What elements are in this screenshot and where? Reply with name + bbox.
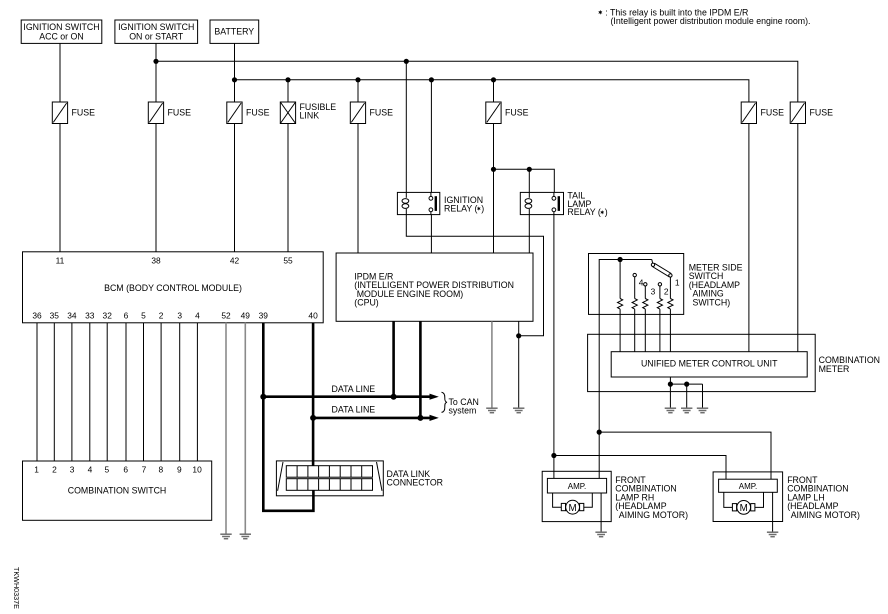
svg-text:42: 42 (230, 255, 240, 265)
svg-text:FUSE: FUSE (370, 108, 394, 118)
svg-text:3: 3 (70, 465, 75, 475)
svg-text:M: M (740, 503, 748, 514)
wire battery to fuse (234, 43, 236, 102)
svg-text:METER: METER (819, 364, 850, 374)
tail lamp relay U2 (520, 191, 607, 218)
ground BCM 52 (220, 534, 231, 539)
svg-text:AIMING MOTOR): AIMING MOTOR) (791, 510, 860, 520)
ground lamp RH (595, 532, 606, 537)
junction ON/START bus (153, 59, 158, 64)
svg-text:): ) (605, 207, 608, 217)
IPDM E/R box (336, 253, 533, 321)
wire bus2 to ignition relay contact (430, 80, 432, 193)
svg-text:3: 3 (177, 310, 182, 320)
svg-text:COMBINATION SWITCH: COMBINATION SWITCH (68, 486, 167, 496)
wire tail relay coil to IPDM (528, 215, 530, 253)
ignition switch ACC box (21, 20, 102, 43)
data line wire BCM 39 (263, 323, 313, 511)
svg-text:FUSE: FUSE (246, 108, 270, 118)
svg-text:IGNITION SWITCH: IGNITION SWITCH (23, 22, 99, 32)
wire ACC switch to fuse (59, 43, 61, 102)
junction tail feed split (551, 453, 556, 458)
IPDM ground wire 2 (518, 321, 520, 407)
svg-text:5: 5 (141, 310, 146, 320)
fuse 1 (ACC) (52, 102, 95, 124)
label lamp LH (787, 475, 860, 520)
ground meter 1 (665, 408, 676, 413)
svg-text:10: 10 (192, 465, 202, 475)
svg-text:7: 7 (142, 465, 147, 475)
ignition switch ON/START box (115, 20, 198, 43)
meter side switch label (689, 262, 743, 307)
wire BCM 49 to ground (244, 323, 246, 534)
wire fuse3 to BCM pin 42 (234, 124, 236, 252)
svg-text:TKWH0337E: TKWH0337E (12, 567, 21, 609)
wire bus2 to fusible link (287, 80, 289, 102)
svg-text:35: 35 (50, 310, 60, 320)
junction aiming signal split (597, 430, 602, 435)
svg-text:AIMING MOTOR): AIMING MOTOR) (619, 510, 688, 520)
svg-text:DATA LINE: DATA LINE (332, 384, 376, 394)
junction data line 1 (260, 394, 266, 400)
junction ignition relay coil feed (404, 59, 409, 64)
junction battery bus (232, 77, 237, 82)
fuse 6 (486, 102, 529, 124)
wire tail relay contact down to lamps (553, 215, 555, 456)
data line 1 to CAN (263, 395, 431, 398)
wire fuse7 to unified meter (748, 124, 750, 352)
svg-text:33: 33 (85, 310, 95, 320)
front combination lamp RH (542, 471, 611, 531)
junction fuse F feed (491, 77, 496, 82)
svg-text:FUSE: FUSE (72, 108, 96, 118)
note asterisk legend (598, 8, 810, 27)
svg-text:49: 49 (241, 310, 251, 320)
IPDM data pins (392, 321, 395, 396)
svg-text:FUSE: FUSE (168, 108, 192, 118)
svg-text:M: M (569, 503, 577, 514)
wire tail feed to RH lamp (553, 456, 555, 479)
wire ignition relay coil return (406, 215, 543, 336)
svg-text:2: 2 (159, 310, 164, 320)
svg-text:4: 4 (88, 465, 93, 475)
fuse 5 (350, 102, 393, 124)
wire ignition relay contact to IPDM (430, 215, 432, 253)
fuse 2 (ON/START) (148, 102, 191, 124)
wire fusible link to BCM pin 55 (287, 124, 289, 252)
svg-text:38: 38 (151, 255, 161, 265)
svg-text:DATA LINE: DATA LINE (332, 405, 376, 415)
wire bus2 to fuse E (357, 80, 359, 102)
data line 2 to CAN (313, 417, 431, 420)
svg-text:1: 1 (675, 277, 680, 287)
resistors (617, 299, 622, 310)
ground meter 2 (681, 408, 692, 413)
fusible link (280, 102, 336, 124)
wire bus2 to fuse F (493, 80, 495, 102)
label combination meter (819, 355, 880, 374)
junction fusible link feed (285, 77, 290, 82)
junction data line 2 (310, 415, 316, 421)
wire ON/START switch to fuse (155, 43, 157, 102)
ground IPDM 1 (486, 408, 497, 413)
bus ignition (from ON/START) (156, 61, 798, 102)
svg-text:IGNITION SWITCH: IGNITION SWITCH (118, 22, 194, 32)
bus battery (235, 80, 749, 102)
junction coil return to IPDM ground (516, 333, 521, 338)
svg-text:3: 3 (651, 286, 656, 296)
IPDM ground wire 1 (491, 321, 493, 407)
wire aiming signal to lamps (598, 314, 600, 478)
svg-text:52: 52 (221, 310, 231, 320)
svg-text:system: system (449, 406, 477, 416)
svg-text:32: 32 (103, 310, 113, 320)
ground lamp LH (767, 532, 778, 537)
svg-text:36: 36 (32, 310, 42, 320)
svg-text:LINK: LINK (300, 111, 320, 121)
svg-text:ON or START: ON or START (129, 32, 184, 42)
wire fuse8 to unified meter (797, 124, 799, 352)
svg-text:): ) (481, 204, 484, 214)
svg-text:AMP.: AMP. (568, 482, 587, 491)
switch contacts (633, 273, 636, 276)
BCM to combination switch wires (37, 323, 197, 461)
svg-text:6: 6 (124, 310, 129, 320)
node tail relay feed (494, 169, 555, 192)
svg-text:ACC or ON: ACC or ON (39, 32, 83, 42)
svg-text:AMP.: AMP. (739, 482, 758, 491)
wire fuse6 down to tail relay node (493, 124, 495, 254)
wire fuse2 to BCM pin 38 (155, 124, 157, 252)
meter side switch box (589, 254, 684, 315)
svg-text:34: 34 (67, 310, 77, 320)
svg-text:RELAY (: RELAY ( (444, 204, 477, 214)
svg-text:FUSE: FUSE (810, 108, 834, 118)
wire fuse1 to BCM pin 11 (59, 124, 61, 252)
wire fuse5 to IPDM (357, 124, 359, 254)
svg-text:8: 8 (158, 465, 163, 475)
ground BCM 49 (240, 534, 251, 539)
svg-text:5: 5 (104, 465, 109, 475)
combination switch box (23, 461, 212, 520)
svg-text:4: 4 (195, 310, 200, 320)
ground IPDM 2 (513, 408, 524, 413)
fuse 7 (741, 102, 784, 124)
junction fuse E feed (355, 77, 360, 82)
svg-text:(CPU): (CPU) (354, 297, 379, 307)
svg-text:BATTERY: BATTERY (214, 27, 254, 37)
svg-text:6: 6 (123, 465, 128, 475)
ignition relay U1 (397, 192, 484, 214)
meter ground network (668, 377, 703, 408)
svg-text:2: 2 (52, 465, 57, 475)
svg-text:2: 2 (664, 286, 669, 296)
label lamp RH (615, 475, 688, 520)
unified meter control unit box (611, 352, 807, 377)
svg-text:11: 11 (56, 255, 65, 265)
combination meter box (588, 334, 816, 391)
wire BCM 52 to ground (225, 323, 227, 534)
svg-text:FUSE: FUSE (505, 108, 529, 118)
ground meter 3 (697, 408, 708, 413)
wire tail feed to LH lamp (554, 456, 726, 480)
BCM box (23, 252, 324, 323)
switch wiper (651, 260, 654, 264)
data line wire BCM 40 (312, 323, 315, 466)
svg-text:SWITCH): SWITCH) (693, 297, 731, 307)
svg-text:(Intelligent power distributio: (Intelligent power distribution module e… (611, 16, 811, 26)
battery box (210, 20, 259, 43)
svg-text:RELAY (: RELAY ( (567, 207, 600, 217)
svg-text:39: 39 (259, 310, 269, 320)
front combination lamp LH (713, 472, 783, 532)
svg-text:9: 9 (177, 465, 182, 475)
junction ignition relay contact feed (429, 77, 434, 82)
switch to meter wires (620, 309, 670, 352)
data link connector (276, 461, 443, 496)
wire bus1 to ignition relay coil (405, 61, 407, 192)
svg-text:40: 40 (308, 310, 318, 320)
svg-text:FUSE: FUSE (761, 108, 785, 118)
fuse 3 (battery) (227, 102, 270, 124)
svg-text:1: 1 (34, 465, 39, 475)
fuse 8 (790, 102, 833, 124)
svg-text:UNIFIED METER CONTROL UNIT: UNIFIED METER CONTROL UNIT (641, 358, 778, 368)
svg-text:BCM (BODY CONTROL MODULE): BCM (BODY CONTROL MODULE) (104, 283, 242, 293)
brace to CAN (442, 392, 448, 412)
svg-text:55: 55 (283, 255, 293, 265)
wire aiming signal to LH lamp (599, 432, 771, 479)
svg-text:4: 4 (639, 278, 644, 288)
svg-text:CONNECTOR: CONNECTOR (387, 478, 444, 488)
